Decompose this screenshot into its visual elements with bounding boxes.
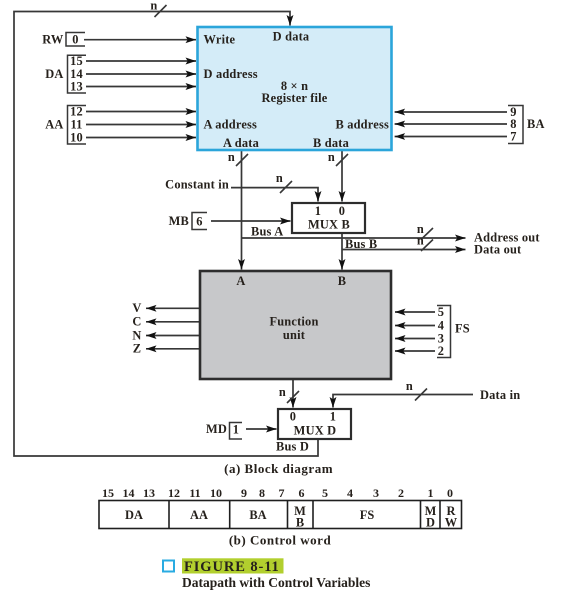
svg-text:Bus D: Bus D — [276, 440, 309, 454]
svg-text:DA: DA — [45, 67, 63, 81]
svg-text:0: 0 — [290, 410, 296, 424]
svg-text:unit: unit — [283, 328, 306, 342]
svg-text:Z: Z — [133, 342, 141, 356]
svg-text:2: 2 — [438, 344, 444, 358]
svg-text:B data: B data — [313, 136, 349, 150]
svg-text:(b) Control word: (b) Control word — [229, 533, 332, 548]
svg-text:6: 6 — [196, 215, 202, 229]
svg-text:1: 1 — [428, 486, 434, 500]
svg-text:B address: B address — [335, 117, 389, 131]
svg-text:MUX D: MUX D — [294, 424, 337, 438]
svg-text:D data: D data — [273, 30, 310, 44]
svg-text:FS: FS — [455, 322, 470, 336]
svg-text:8: 8 — [259, 486, 265, 500]
svg-text:BA: BA — [249, 508, 266, 522]
svg-text:N: N — [132, 328, 141, 342]
svg-text:RW: RW — [42, 33, 64, 47]
svg-text:1: 1 — [315, 204, 321, 218]
svg-text:4: 4 — [347, 486, 353, 500]
svg-text:11: 11 — [189, 486, 200, 500]
svg-text:2: 2 — [398, 486, 404, 500]
svg-text:1: 1 — [330, 410, 336, 424]
svg-text:10: 10 — [70, 130, 83, 144]
svg-text:n: n — [276, 171, 283, 185]
svg-text:n: n — [406, 379, 413, 393]
svg-text:A: A — [236, 274, 245, 288]
svg-text:7: 7 — [279, 486, 285, 500]
svg-text:n: n — [150, 0, 157, 13]
svg-text:13: 13 — [143, 486, 155, 500]
svg-text:12: 12 — [70, 104, 83, 118]
svg-text:10: 10 — [210, 486, 222, 500]
svg-text:BA: BA — [527, 117, 545, 131]
svg-text:1: 1 — [233, 423, 239, 437]
svg-text:n: n — [328, 150, 335, 164]
svg-text:Datapath with Control Variable: Datapath with Control Variables — [182, 575, 370, 590]
svg-text:Write: Write — [204, 33, 236, 47]
svg-text:MD: MD — [206, 422, 227, 436]
svg-text:D address: D address — [204, 67, 258, 81]
svg-text:n: n — [228, 150, 235, 164]
svg-text:(a) Block diagram: (a) Block diagram — [224, 461, 333, 476]
svg-text:12: 12 — [168, 486, 180, 500]
svg-text:15: 15 — [102, 486, 114, 500]
svg-text:13: 13 — [70, 79, 83, 93]
svg-text:FIGURE 8-11: FIGURE 8-11 — [184, 559, 280, 575]
svg-text:AA: AA — [190, 508, 208, 522]
svg-text:B: B — [338, 274, 346, 288]
svg-text:0: 0 — [339, 204, 345, 218]
svg-text:Register file: Register file — [261, 91, 327, 105]
svg-text:MB: MB — [169, 214, 189, 228]
svg-text:7: 7 — [510, 129, 516, 143]
svg-text:Data out: Data out — [474, 242, 522, 256]
svg-text:Data in: Data in — [480, 388, 520, 402]
svg-text:Bus A: Bus A — [251, 225, 283, 239]
svg-text:n: n — [417, 234, 424, 248]
svg-text:C: C — [132, 315, 141, 329]
svg-text:5: 5 — [438, 305, 444, 319]
svg-text:3: 3 — [373, 486, 379, 500]
svg-text:A data: A data — [223, 136, 259, 150]
svg-text:15: 15 — [70, 54, 83, 68]
svg-text:DA: DA — [125, 508, 143, 522]
svg-text:B: B — [296, 515, 304, 529]
svg-text:5: 5 — [322, 486, 328, 500]
svg-text:MUX B: MUX B — [308, 217, 350, 231]
svg-text:n: n — [279, 385, 286, 399]
svg-text:0: 0 — [72, 33, 78, 47]
svg-text:D: D — [426, 515, 435, 529]
svg-text:A address: A address — [204, 117, 258, 131]
svg-text:FS: FS — [360, 508, 375, 522]
svg-text:V: V — [132, 301, 141, 315]
svg-text:Bus B: Bus B — [345, 237, 377, 251]
svg-text:W: W — [445, 515, 458, 529]
svg-text:Constant in: Constant in — [165, 178, 229, 192]
svg-text:9: 9 — [241, 486, 247, 500]
svg-text:4: 4 — [438, 318, 444, 332]
svg-text:0: 0 — [447, 486, 453, 500]
svg-text:14: 14 — [123, 486, 135, 500]
svg-text:6: 6 — [299, 486, 305, 500]
svg-text:Function: Function — [269, 315, 318, 329]
svg-text:AA: AA — [45, 118, 63, 132]
svg-text:11: 11 — [70, 117, 82, 131]
